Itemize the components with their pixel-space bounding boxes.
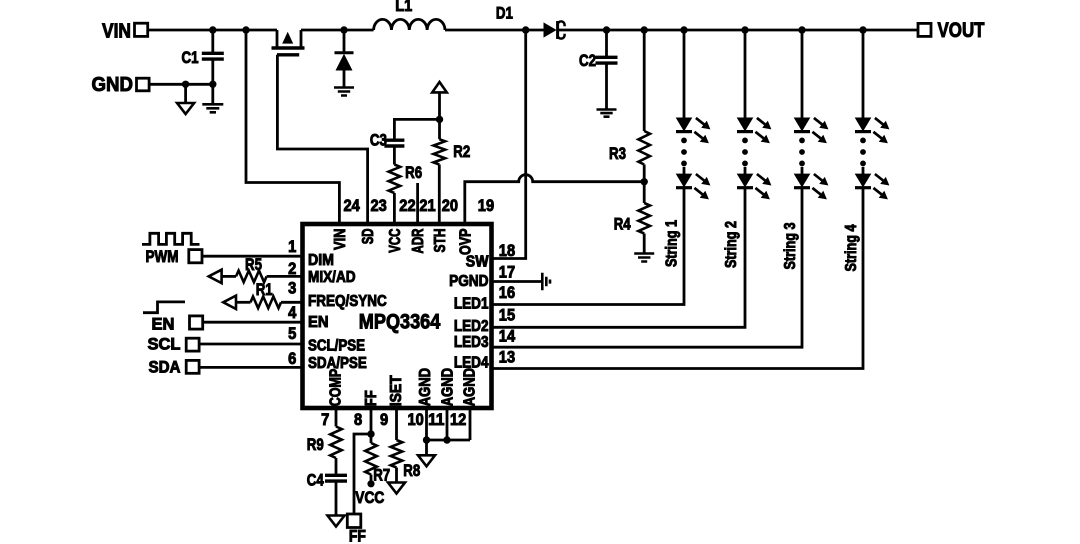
resistor R2 label xyxy=(453,142,470,161)
diode D1 label xyxy=(496,4,513,23)
node C1/GND junction xyxy=(209,81,216,88)
resistor R6 xyxy=(389,146,401,224)
svg-text:7: 7 xyxy=(321,411,329,429)
svg-text:MIX/AD: MIX/AD xyxy=(308,269,356,286)
pin number 18 xyxy=(499,242,515,260)
pin number 11 xyxy=(428,411,444,429)
node R3 rail junction xyxy=(641,26,648,33)
pin name SW xyxy=(466,254,489,271)
terminal GND label xyxy=(92,74,134,96)
U1 part number label xyxy=(359,311,441,334)
op-amp U1 MPQ3364 body xyxy=(303,224,492,408)
svg-text:L1: L1 xyxy=(395,0,412,15)
svg-text:22: 22 xyxy=(399,197,415,215)
VCC supply label xyxy=(355,489,384,507)
pin number 3 xyxy=(288,280,296,298)
pin number 12 xyxy=(450,411,466,429)
svg-text:String 4: String 4 xyxy=(843,224,860,271)
svg-text:C4: C4 xyxy=(307,471,324,490)
pin name AGND (column at x=447.1) xyxy=(440,368,457,406)
node string3 rail junction xyxy=(798,26,805,33)
string 2 label xyxy=(723,221,740,268)
wire AGND to ground xyxy=(425,440,428,455)
svg-text:12: 12 xyxy=(450,411,466,429)
svg-text:4: 4 xyxy=(288,304,297,322)
diode D1 (boost rectifier) xyxy=(544,21,565,39)
pin name FREQ/SYNC xyxy=(308,293,387,310)
pin number 13 xyxy=(499,349,515,367)
resistor R8 xyxy=(391,408,403,483)
pin name ISET (column at x=395.4) xyxy=(388,375,405,407)
LED string 4 upper diode xyxy=(855,118,889,143)
svg-text:PWM: PWM xyxy=(146,248,179,266)
svg-text:GND: GND xyxy=(92,74,134,96)
pin number 20 xyxy=(442,197,458,215)
wire junction to C3 xyxy=(394,119,439,140)
resistor R5 xyxy=(222,271,303,283)
pin number 22 xyxy=(399,197,415,215)
wire SDA to pin 6 xyxy=(199,366,302,369)
svg-text:10: 10 xyxy=(408,411,424,429)
ground (earth) below R4 xyxy=(634,254,654,262)
svg-text:ADR: ADR xyxy=(410,229,427,254)
wire PWM to DIM pin 1 xyxy=(202,255,303,258)
LED string 3 lower diode xyxy=(794,174,828,199)
resistor R5 label xyxy=(245,255,262,274)
pin number 19 xyxy=(478,197,494,215)
terminal VOUT pad xyxy=(918,23,931,36)
wire string 4 top xyxy=(862,30,865,118)
node string4 rail junction xyxy=(859,26,866,33)
wire string 1 top xyxy=(683,30,686,118)
svg-text:FREQ/SYNC: FREQ/SYNC xyxy=(308,293,387,310)
svg-text:SDA: SDA xyxy=(149,358,181,376)
node C1 top junction xyxy=(209,26,216,33)
pin number 14 xyxy=(499,328,516,346)
svg-text:String 3: String 3 xyxy=(782,222,799,269)
svg-text:VCC: VCC xyxy=(387,229,404,253)
inductor L1 xyxy=(374,19,445,30)
wire VIN pin branch xyxy=(246,30,339,224)
svg-text:AGND: AGND xyxy=(461,368,478,406)
resistor R7 label xyxy=(373,466,390,485)
terminal EN label xyxy=(152,315,175,333)
ground (earth) below D2 xyxy=(334,88,354,96)
resistor R2 xyxy=(434,119,446,224)
PWM waveform symbol xyxy=(142,233,200,244)
pin name SDA/PSE xyxy=(308,355,367,372)
wire EN to pin 4 xyxy=(203,321,302,324)
svg-text:String 2: String 2 xyxy=(723,221,740,268)
svg-text:16: 16 xyxy=(499,284,515,302)
supply arrow above R2 xyxy=(432,82,447,119)
svg-text:R6: R6 xyxy=(405,163,422,182)
node GND triangle branch xyxy=(182,81,189,88)
wire AGND bus xyxy=(427,408,471,440)
pin number 6 xyxy=(288,350,296,368)
arrow into R1 xyxy=(223,296,236,309)
resistor R3 xyxy=(638,30,650,182)
ground (small earth) at PGND xyxy=(542,273,550,291)
wire string 2 mid lower xyxy=(744,167,747,175)
pin number 2 xyxy=(288,260,296,278)
node C3/R2 junction xyxy=(436,116,443,123)
pin name LED3 xyxy=(454,334,489,351)
terminal VIN label xyxy=(102,21,131,43)
svg-text:D1: D1 xyxy=(496,4,513,23)
LED string 1 lower diode xyxy=(676,174,710,199)
svg-text:LED3: LED3 xyxy=(454,334,489,351)
terminal VOUT label xyxy=(938,19,985,42)
LED string 4 lower diode xyxy=(855,174,889,199)
resistor R4 label xyxy=(614,215,631,234)
resistor R3 label xyxy=(609,144,626,163)
svg-text:3: 3 xyxy=(288,280,296,298)
pin name AGND (column at x=468.8) xyxy=(461,368,478,406)
terminal SCL pad xyxy=(186,338,199,351)
LED string 2 upper diode xyxy=(737,118,771,143)
wire string 2 to LED2 pin xyxy=(492,188,746,328)
string 1 label xyxy=(663,220,680,267)
svg-text:20: 20 xyxy=(442,197,458,215)
svg-text:6: 6 xyxy=(288,350,296,368)
pin number 17 xyxy=(499,264,515,282)
svg-text:AGND: AGND xyxy=(440,368,457,406)
pin number 16 xyxy=(499,284,515,302)
resistor R6 label xyxy=(405,163,422,182)
wire FF pin 8 down xyxy=(370,408,373,434)
resistor R9 xyxy=(330,408,342,475)
LED string 2 lower diode xyxy=(737,174,771,199)
resistor R4 xyxy=(638,182,650,254)
svg-text:C3: C3 xyxy=(370,131,387,150)
LED string 3 upper diode xyxy=(794,118,828,143)
svg-text:9: 9 xyxy=(380,411,388,429)
svg-text:VCC: VCC xyxy=(355,489,384,507)
wire string 1 mid lower xyxy=(683,167,686,175)
capacitor C1 label xyxy=(182,48,199,67)
svg-text:SW: SW xyxy=(466,254,489,271)
node AGND pin11 xyxy=(443,436,450,443)
pin number 7 xyxy=(321,411,329,429)
capacitor C1 xyxy=(202,30,224,84)
svg-text:13: 13 xyxy=(499,349,515,367)
svg-text:SCL: SCL xyxy=(148,336,181,354)
capacitor C2 label xyxy=(579,51,596,70)
svg-text:VOUT: VOUT xyxy=(938,19,985,42)
svg-text:AGND: AGND xyxy=(417,368,434,406)
svg-text:C1: C1 xyxy=(182,48,199,67)
terminal VIN pad xyxy=(135,23,148,36)
wire OVP to divider (with hop) xyxy=(465,175,644,224)
pin number 15 xyxy=(499,307,515,325)
svg-text:1: 1 xyxy=(288,238,296,256)
wire L1 to D1 xyxy=(445,29,544,32)
capacitor C3 xyxy=(384,140,404,146)
pin name SD xyxy=(360,229,377,245)
svg-text:18: 18 xyxy=(499,242,515,260)
svg-text:OVP: OVP xyxy=(457,229,474,256)
pin number 21 xyxy=(419,197,435,215)
pin name COMP (column at x=335) xyxy=(328,369,345,407)
terminal SDA label xyxy=(149,358,181,376)
pin name LED4 xyxy=(454,355,489,372)
pin number 4 xyxy=(288,304,297,322)
LED string 1 upper diode xyxy=(676,118,710,143)
svg-text:R3: R3 xyxy=(609,144,626,163)
svg-text:VIN: VIN xyxy=(332,229,349,251)
resistor R8 label xyxy=(403,461,420,480)
terminal FF label xyxy=(349,528,366,544)
svg-text:ISET: ISET xyxy=(388,375,405,407)
pin number 8 xyxy=(354,411,362,429)
pin name FF (column at x=370.4) xyxy=(363,390,380,406)
pin number 24 xyxy=(344,197,361,215)
inductor L1 label xyxy=(395,0,412,15)
capacitor C4 label xyxy=(307,471,324,490)
pin name DIM xyxy=(308,252,334,269)
pin number 23 xyxy=(371,197,387,215)
pin name SCL/PSE xyxy=(308,337,365,354)
wire SW branch xyxy=(492,30,526,259)
svg-text:VIN: VIN xyxy=(102,21,131,43)
wire string 3 mid lower xyxy=(801,167,804,175)
node VCC supply xyxy=(367,480,374,487)
terminal GND pad xyxy=(137,78,150,91)
svg-text:LED2: LED2 xyxy=(454,318,489,335)
svg-text:5: 5 xyxy=(288,325,296,343)
diode D2 (clamp to ground) xyxy=(335,30,354,88)
svg-text:LED1: LED1 xyxy=(454,296,489,313)
string 4 ellipsis dots xyxy=(860,138,866,167)
resistor R1 label xyxy=(256,280,273,299)
transistor Q1 (PMOS disconnect switch) xyxy=(272,30,305,55)
wire string 3 to LED3 pin xyxy=(492,188,803,348)
ground (earth) below C1 xyxy=(202,84,223,112)
pin number 9 xyxy=(380,411,388,429)
string 3 label xyxy=(782,222,799,269)
ground (triangle) at GND rail xyxy=(177,84,194,114)
wire string 2 top xyxy=(744,30,747,118)
svg-text:R2: R2 xyxy=(453,142,470,161)
svg-text:R9: R9 xyxy=(307,435,324,454)
terminal FF pad xyxy=(347,514,361,528)
pin name EN xyxy=(308,314,329,331)
string 1 ellipsis dots xyxy=(681,138,687,167)
wire Q1 gate to SD pin 23 xyxy=(277,55,367,224)
pin name OVP xyxy=(457,229,474,256)
ground (triangle) below AGND xyxy=(418,455,435,466)
capacitor C3 label xyxy=(370,131,387,150)
wire VOUT rail xyxy=(558,29,918,32)
arrow into R5 xyxy=(209,270,222,283)
wire PGND stub xyxy=(492,280,543,283)
ground (earth) below C2 xyxy=(597,110,617,117)
svg-text:14: 14 xyxy=(499,328,516,346)
terminal EN pad xyxy=(190,316,203,329)
svg-text:SD: SD xyxy=(360,229,377,245)
string 2 ellipsis dots xyxy=(742,138,748,167)
wire to FF pad xyxy=(354,434,371,514)
svg-text:PGND: PGND xyxy=(449,273,488,290)
wire string 4 mid lower xyxy=(862,167,865,175)
pin number 10 xyxy=(408,411,424,429)
node SW branch junction xyxy=(522,26,529,33)
capacitor C2 xyxy=(596,30,618,110)
node VIN-pin branch junction xyxy=(242,26,249,33)
resistor R1 xyxy=(236,297,303,309)
svg-text:11: 11 xyxy=(428,411,444,429)
pin name LED2 xyxy=(454,318,489,335)
string 3 ellipsis dots xyxy=(799,138,805,167)
node string2 rail junction xyxy=(741,26,748,33)
pin name MIX/AD xyxy=(308,269,356,286)
wire rail Q1 to L1 xyxy=(301,29,374,32)
svg-text:EN: EN xyxy=(308,314,329,331)
pin 21 ADR stub xyxy=(416,183,419,224)
svg-text:23: 23 xyxy=(371,197,387,215)
EN step waveform symbol xyxy=(143,302,185,313)
svg-text:COMP: COMP xyxy=(328,369,345,407)
wire string 1 to LED1 pin xyxy=(492,188,685,305)
node R3/R4 OVP junction xyxy=(641,178,648,185)
ground (triangle) below C4 xyxy=(328,516,345,527)
node pin8 junction xyxy=(367,430,374,437)
svg-text:DIM: DIM xyxy=(308,252,334,269)
svg-text:FF: FF xyxy=(349,528,366,544)
svg-text:FF: FF xyxy=(363,390,380,406)
svg-text:STH: STH xyxy=(432,229,449,253)
wire SCL to pin 5 xyxy=(199,343,302,346)
pin name STH xyxy=(432,229,449,253)
string 4 label xyxy=(843,224,860,271)
pin name VIN xyxy=(332,229,349,251)
pin name PGND xyxy=(449,273,488,290)
svg-text:15: 15 xyxy=(499,307,515,325)
capacitor C4 xyxy=(325,475,347,481)
svg-text:C2: C2 xyxy=(579,51,596,70)
svg-text:19: 19 xyxy=(478,197,494,215)
pin name AGND (column at x=424.6) xyxy=(417,368,434,406)
node C2 rail junction xyxy=(603,26,610,33)
wire string 4 to LED4 pin xyxy=(492,188,864,369)
wire string 3 top xyxy=(801,30,804,118)
node catch-diode branch xyxy=(340,26,347,33)
node AGND pin10 xyxy=(423,436,430,443)
svg-text:MPQ3364: MPQ3364 xyxy=(359,311,441,334)
svg-text:R8: R8 xyxy=(403,461,420,480)
svg-text:String 1: String 1 xyxy=(663,220,680,267)
wire GND to C1 bottom xyxy=(149,83,213,86)
node string1 rail junction xyxy=(680,26,687,33)
resistor R7 xyxy=(365,434,377,481)
svg-text:EN: EN xyxy=(152,315,175,333)
ground (triangle) below R8 xyxy=(388,483,405,494)
terminal SDA pad xyxy=(186,360,199,373)
svg-text:21: 21 xyxy=(419,197,435,215)
wire VIN rail left segment xyxy=(148,29,277,32)
svg-text:8: 8 xyxy=(354,411,362,429)
resistor R9 label xyxy=(307,435,324,454)
pin number 5 xyxy=(288,325,296,343)
pin name VCC xyxy=(387,229,404,253)
pin name LED1 xyxy=(454,296,489,313)
pin name ADR xyxy=(410,229,427,254)
pin number 1 xyxy=(288,238,296,256)
terminal PWM pad xyxy=(189,250,202,263)
svg-text:SCL/PSE: SCL/PSE xyxy=(308,337,365,354)
svg-text:24: 24 xyxy=(344,197,361,215)
svg-text:17: 17 xyxy=(499,264,515,282)
wire C4 to ground xyxy=(335,481,338,516)
svg-text:R4: R4 xyxy=(614,215,631,234)
terminal SCL label xyxy=(148,336,181,354)
terminal PWM label xyxy=(146,248,179,266)
